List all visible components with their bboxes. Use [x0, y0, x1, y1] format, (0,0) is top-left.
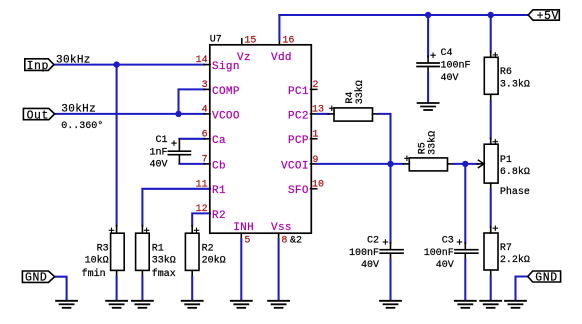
svg-text:30kHz: 30kHz [61, 103, 96, 115]
svg-text:7: 7 [202, 155, 208, 166]
pin 15 stub [241, 39, 243, 45]
wire pin 8 (Vss) to ground [278, 233, 280, 300]
wire C3 down to ground [464, 164, 466, 300]
svg-text:C4: C4 [441, 48, 453, 59]
svg-text:4: 4 [202, 105, 208, 116]
resistor R6 [484, 53, 498, 95]
op-amp U7 IC body [210, 45, 311, 233]
svg-text:Sign: Sign [212, 61, 240, 73]
capacitor C4 [417, 53, 439, 67]
wire R4 right down to VCOI net [373, 114, 391, 164]
pin 2 stub [311, 88, 317, 90]
potentiometer P1 [477, 140, 498, 184]
ground below pin 8 [268, 301, 289, 308]
svg-text:20kΩ: 20kΩ [202, 254, 226, 266]
wire pin 12 to R2 [192, 213, 210, 233]
ground below C2 [380, 301, 401, 308]
port +5V [528, 10, 559, 20]
svg-text:40V: 40V [149, 159, 167, 170]
svg-text:+5V: +5V [537, 10, 559, 23]
svg-text:COMP: COMP [212, 86, 240, 98]
resistor R2 [185, 228, 199, 270]
ground below C3 [455, 301, 476, 308]
svg-text:Cb: Cb [212, 160, 226, 172]
ground below R7 [480, 301, 501, 308]
svg-text:R1: R1 [212, 185, 226, 197]
wire R2 to ground [191, 270, 193, 300]
wire pin 6 (Ca) to C1 top [179, 139, 210, 151]
wire pin 11 to R1 [142, 189, 210, 233]
wire R7 to ground [490, 270, 492, 300]
ground below GND right [505, 301, 526, 308]
svg-text:0..360°: 0..360° [61, 120, 103, 132]
svg-text:C2: C2 [367, 235, 379, 246]
wire R6 to P1 [490, 94, 492, 144]
svg-text:R7: R7 [500, 243, 512, 254]
port Inp [25, 59, 54, 71]
wire pin 16 (Vdd) up to +5V rail [278, 15, 280, 45]
svg-text:P1: P1 [500, 155, 512, 166]
ground below R1 [132, 301, 153, 308]
svg-text:R6: R6 [500, 67, 512, 78]
svg-text:1: 1 [312, 129, 318, 140]
svg-text:U7: U7 [210, 35, 222, 46]
svg-text:Ca: Ca [212, 135, 226, 147]
svg-text:33kΩ: 33kΩ [354, 80, 366, 104]
svg-text:100nF: 100nF [441, 60, 471, 71]
svg-text:VCOI: VCOI [281, 160, 309, 172]
svg-text:Vz: Vz [237, 52, 251, 64]
svg-text:15: 15 [244, 36, 256, 47]
svg-text:R3: R3 [97, 243, 109, 254]
wire Out port to pin 4 (VCOO) [55, 113, 210, 115]
svg-text:5: 5 [244, 235, 250, 246]
wire pin 5 (INH) to ground [240, 233, 242, 300]
resistor R4 [330, 106, 373, 121]
wire R3 to ground [116, 270, 118, 300]
svg-text:100nF: 100nF [424, 248, 454, 259]
wire C4 bottom to ground [427, 67, 429, 102]
node junction Out/COMP [175, 111, 181, 117]
svg-text:INH: INH [233, 222, 254, 234]
node junction VCOI/R4/C2 [387, 161, 393, 167]
port GND right [528, 271, 561, 282]
resistor R3 [109, 228, 124, 270]
svg-text:3: 3 [202, 80, 208, 91]
svg-text:40V: 40V [441, 73, 459, 84]
svg-text:VCOO: VCOO [212, 110, 240, 122]
svg-text:6.8kΩ: 6.8kΩ [500, 166, 530, 178]
svg-text:GND: GND [25, 272, 47, 285]
svg-text:3.3kΩ: 3.3kΩ [500, 78, 530, 90]
wire C2 down to ground [389, 164, 391, 300]
svg-text:Vss: Vss [271, 222, 292, 234]
wire GND right port to ground [516, 277, 528, 301]
wire Inp port to pin 14 (Sign) [54, 64, 210, 66]
capacitor C1 [168, 141, 190, 155]
capacitor C2 [380, 240, 403, 253]
svg-text:13: 13 [312, 105, 324, 116]
ground below R3 [106, 301, 127, 308]
svg-text:Phase: Phase [500, 186, 530, 198]
wire pin 7 (Cb) to C1 bottom [179, 155, 210, 164]
svg-text:10kΩ: 10kΩ [85, 254, 109, 266]
svg-text:R2: R2 [212, 210, 226, 222]
wire rail down to C4 [427, 15, 429, 62]
svg-text:R2: R2 [202, 243, 214, 254]
wire R1 to ground [141, 270, 143, 300]
svg-text:2: 2 [312, 80, 318, 91]
svg-text:33kΩ: 33kΩ [152, 254, 176, 266]
svg-text:2.2kΩ: 2.2kΩ [500, 254, 530, 266]
svg-text:40V: 40V [436, 260, 454, 271]
svg-text:C3: C3 [442, 235, 454, 246]
resistor R1 [136, 228, 150, 270]
wire R5 to P1 wiper [448, 163, 478, 165]
port Out [23, 108, 54, 119]
svg-text:8: 8 [281, 235, 287, 246]
node junction Inp/R3 [113, 61, 119, 67]
svg-text:1nF: 1nF [149, 148, 167, 159]
svg-text:fmin: fmin [82, 268, 106, 280]
pin 10 stub [311, 188, 317, 190]
svg-text:R1: R1 [152, 243, 164, 254]
wire rail down to R6 [490, 15, 492, 57]
wire pin 9 (VCOI) to R5 [311, 163, 410, 165]
svg-text:Vdd: Vdd [271, 52, 292, 64]
svg-text:14: 14 [196, 55, 208, 66]
svg-text:11: 11 [196, 179, 208, 190]
svg-text:16: 16 [282, 36, 294, 47]
svg-text:9: 9 [312, 155, 318, 166]
wire +5V rail [279, 14, 528, 16]
svg-text:SFO: SFO [288, 185, 309, 197]
svg-text:&2: &2 [290, 235, 302, 246]
ground below GND left [56, 301, 77, 308]
wire junction down to R3 [116, 65, 118, 234]
svg-text:33kΩ: 33kΩ [426, 131, 438, 155]
svg-text:10: 10 [312, 179, 324, 190]
resistor R7 [484, 226, 498, 270]
wire COMP branch to pin 3 [179, 89, 211, 114]
svg-text:C1: C1 [155, 135, 167, 146]
pin 1 stub [311, 138, 317, 140]
svg-text:GND: GND [535, 272, 557, 285]
wire pin 13 (PC2) to R4 [311, 113, 335, 115]
svg-text:12: 12 [196, 204, 208, 215]
svg-text:PC1: PC1 [288, 86, 309, 98]
ground below C4 [418, 103, 439, 110]
svg-text:PCP: PCP [288, 135, 309, 147]
svg-text:PC2: PC2 [288, 110, 309, 122]
node junction R5/C3 [462, 161, 468, 167]
ground below pin 5 [231, 301, 252, 308]
node junction rail/R6 [488, 12, 494, 18]
svg-text:30kHz: 30kHz [56, 54, 91, 66]
resistor R5 [405, 156, 448, 171]
node junction rail/C4 [425, 12, 431, 18]
ground below R2 [182, 301, 203, 308]
svg-text:6: 6 [202, 129, 208, 140]
svg-text:100nF: 100nF [349, 248, 379, 259]
port GND left [22, 271, 54, 282]
capacitor C3 [455, 240, 478, 253]
svg-text:fmax: fmax [152, 268, 176, 280]
svg-text:40V: 40V [361, 260, 379, 271]
svg-text:Out: Out [27, 109, 49, 122]
svg-text:Inp: Inp [27, 60, 49, 73]
wire GND left port to ground [55, 277, 67, 301]
wire P1 to R7 [490, 183, 492, 233]
